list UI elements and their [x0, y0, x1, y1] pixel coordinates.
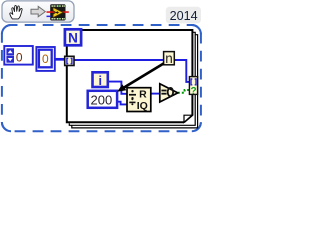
wire remainder to equals zero	[151, 93, 160, 95]
for loop fold flap	[184, 115, 192, 122]
dashed snippet border	[2, 25, 201, 131]
snippet VI icon body	[47, 4, 69, 20]
wire i to quotient x input	[108, 82, 127, 94]
svg-text:R: R	[139, 88, 147, 100]
wire 200 to quotient y input	[118, 102, 128, 105]
svg-text:0: 0	[42, 52, 49, 66]
svg-text:n: n	[165, 51, 173, 66]
svg-text:0: 0	[16, 51, 23, 65]
svg-text:2014: 2014	[170, 9, 198, 23]
toolbar background	[2, 1, 74, 22]
dashed border corner arcs	[2, 25, 201, 131]
2014 version tag	[166, 7, 201, 24]
conditional indexing tunnel	[189, 77, 197, 97]
wire from tunnel through n to right tunnel	[74, 60, 189, 82]
svg-text:N: N	[68, 30, 78, 45]
for loop back frame 3	[72, 35, 198, 128]
boolean wire to conditional terminal	[178, 90, 190, 93]
numeric constant 200	[88, 91, 117, 108]
array index display	[4, 46, 33, 65]
annotation arrow	[117, 63, 164, 91]
array wire (thick)	[55, 58, 65, 61]
quotient and remainder function	[127, 88, 151, 112]
run arrow icon	[31, 6, 45, 16]
for loop main border with folded corner	[67, 30, 193, 122]
loop count terminal N	[65, 29, 81, 45]
svg-text:IQ: IQ	[137, 100, 148, 112]
iteration terminal i	[93, 72, 108, 88]
for loop back frame 2	[69, 32, 195, 125]
annotation n label	[164, 51, 175, 66]
svg-text:?: ?	[190, 86, 196, 97]
equal to zero function	[160, 84, 178, 102]
hand tool icon	[10, 6, 22, 19]
left indexing tunnel	[65, 56, 74, 65]
array element numeric	[36, 47, 54, 71]
svg-text:i: i	[98, 74, 101, 88]
svg-text:200: 200	[91, 92, 113, 107]
